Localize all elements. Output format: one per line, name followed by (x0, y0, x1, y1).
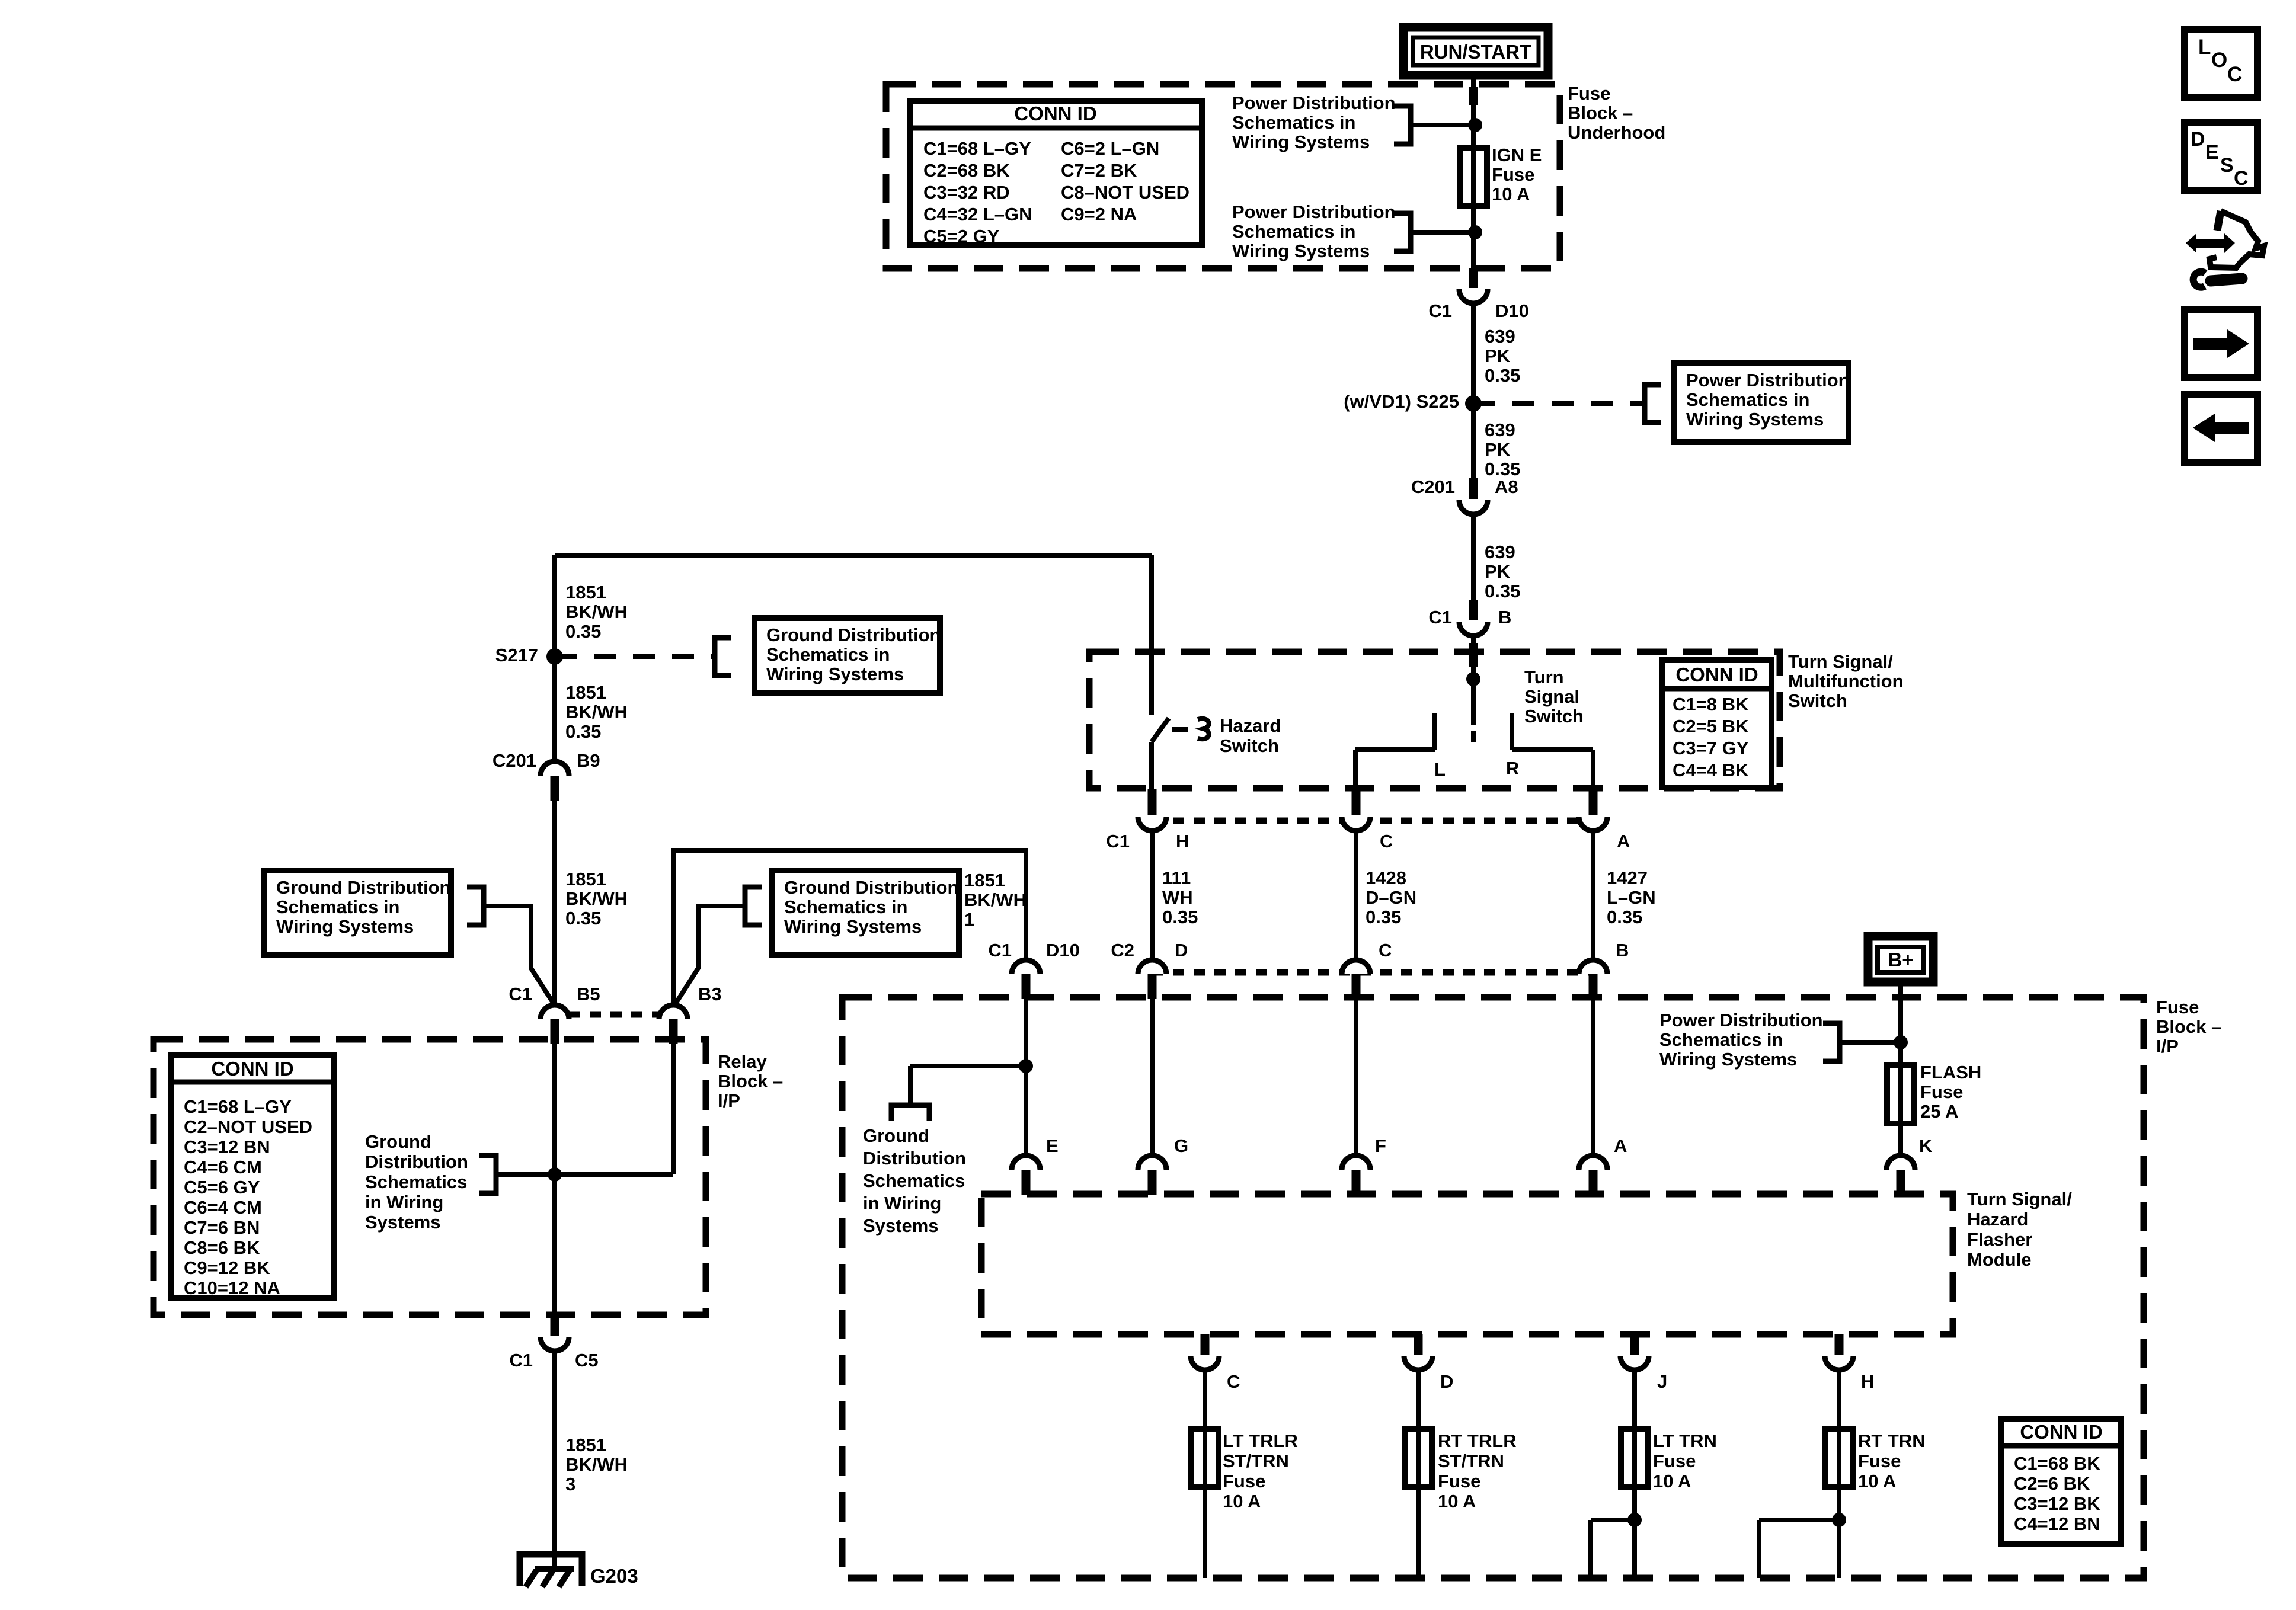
svg-text:B3: B3 (698, 984, 722, 1004)
connector C1 C5 (551, 1315, 559, 1336)
wire RT TRN branch down (1757, 1520, 1761, 1578)
svg-text:Hazard: Hazard (1967, 1209, 2028, 1230)
wire 1851 BK/WH 1 top run to C1 D10 (673, 850, 1026, 1005)
dotted connector line B5-B3 (569, 1012, 659, 1018)
svg-text:C: C (1380, 831, 1393, 852)
svg-text:C1: C1 (1428, 607, 1452, 628)
svg-text:R: R (1506, 758, 1519, 779)
svg-text:D: D (1440, 1371, 1453, 1392)
wire 639 PK (1471, 301, 1476, 404)
svg-text:0.35: 0.35 (1162, 907, 1198, 927)
svg-text:Switch: Switch (1788, 690, 1847, 711)
svg-text:1: 1 (964, 909, 974, 930)
svg-text:C4=12 BN: C4=12 BN (2014, 1513, 2100, 1534)
connector C1 B5 (541, 1005, 569, 1019)
svg-text:(w/VD1) S225: (w/VD1) S225 (1344, 391, 1459, 412)
svg-text:S: S (2220, 154, 2234, 177)
svg-text:D10: D10 (1046, 940, 1080, 961)
wire into switch (1471, 633, 1476, 679)
wire B to A (1591, 986, 1595, 1157)
junction RT TRN (1832, 1513, 1846, 1527)
svg-text:S217: S217 (495, 645, 538, 665)
svg-text:C10=12 NA: C10=12 NA (184, 1278, 280, 1298)
svg-text:639: 639 (1485, 542, 1515, 562)
svg-text:111: 111 (1162, 868, 1191, 888)
power symbol RUN/START (1403, 27, 1548, 75)
svg-text:ST/TRN: ST/TRN (1223, 1451, 1289, 1471)
svg-text:Switch: Switch (1524, 706, 1584, 726)
svg-text:C3=12 BN: C3=12 BN (184, 1137, 270, 1157)
svg-text:C4=4 BK: C4=4 BK (1673, 760, 1749, 780)
svg-text:1428: 1428 (1366, 868, 1406, 888)
svg-text:in Wiring: in Wiring (365, 1192, 443, 1212)
svg-text:Schematics in: Schematics in (276, 897, 399, 917)
svg-text:D10: D10 (1495, 300, 1529, 321)
svg-text:C5: C5 (575, 1350, 599, 1371)
wire 1851 top run (555, 553, 1152, 558)
wire 639 PK 3 (1471, 512, 1476, 601)
wire RT TRN (1837, 1368, 1841, 1578)
connector C201 A8 (1469, 478, 1478, 499)
svg-text:C1=68 BK: C1=68 BK (2014, 1453, 2100, 1474)
svg-text:G203: G203 (590, 1565, 638, 1587)
connector C201 B9 (541, 761, 569, 776)
junction ground branch (1019, 1059, 1033, 1073)
connector G (1138, 1156, 1166, 1170)
svg-text:Fuse: Fuse (1653, 1451, 1696, 1471)
wire switch pole (1471, 679, 1476, 725)
svg-text:Wiring Systems: Wiring Systems (1232, 132, 1370, 152)
svg-text:C1: C1 (1106, 831, 1130, 852)
icon arrow left (2185, 394, 2257, 462)
svg-text:E: E (1046, 1135, 1059, 1156)
svg-text:C3=32 RD: C3=32 RD (923, 182, 1010, 203)
hazard link dash (1172, 727, 1188, 732)
svg-text:639: 639 (1485, 420, 1515, 440)
svg-text:C4=32 L–GN: C4=32 L–GN (923, 204, 1032, 225)
svg-text:Wiring Systems: Wiring Systems (276, 916, 414, 937)
fuse LT TRLR ST/TRN 10A (1191, 1429, 1219, 1487)
svg-text:Block –: Block – (718, 1071, 783, 1092)
svg-text:Ground Distribution: Ground Distribution (766, 625, 941, 645)
fuse FLASH 25A (1887, 1065, 1914, 1124)
connector C2 D (1138, 960, 1166, 974)
svg-text:Fuse: Fuse (1492, 164, 1534, 185)
switch pole tip (1471, 731, 1476, 742)
svg-text:A: A (1614, 1135, 1627, 1156)
svg-text:C2=68 BK: C2=68 BK (923, 160, 1010, 181)
svg-text:PK: PK (1485, 345, 1511, 366)
svg-text:Fuse: Fuse (1438, 1471, 1480, 1491)
bracket S217 (715, 638, 731, 676)
svg-text:I/P: I/P (718, 1090, 740, 1111)
svg-text:1851: 1851 (565, 869, 606, 889)
hazard switch blade (1152, 718, 1169, 742)
bracket lower (1394, 213, 1411, 251)
svg-text:C7=2 BK: C7=2 BK (1061, 160, 1137, 181)
svg-text:BK/WH: BK/WH (964, 889, 1027, 910)
svg-text:BK/WH: BK/WH (565, 601, 628, 622)
wire hazard out (1149, 742, 1154, 789)
svg-text:1427: 1427 (1607, 868, 1648, 888)
svg-text:B5: B5 (577, 984, 600, 1004)
turn signal switch contacts L/R (1432, 713, 1437, 750)
fuse RT TRLR ST/TRN 10A (1405, 1429, 1432, 1487)
svg-text:RT TRLR: RT TRLR (1438, 1430, 1517, 1451)
dotted connector line (row2) (1152, 969, 1593, 976)
svg-text:0.35: 0.35 (1485, 581, 1520, 601)
wire 1851 BK/WH 3 (552, 1349, 557, 1565)
turn signal/multifunction switch dashed box (1089, 652, 1780, 788)
wire D10 to E (1024, 986, 1028, 1157)
svg-text:Turn: Turn (1524, 667, 1564, 687)
bracket B+ (1823, 1023, 1840, 1061)
svg-text:10 A: 10 A (1858, 1471, 1896, 1491)
wire RT TRN branch (1759, 1518, 1839, 1522)
svg-text:639: 639 (1485, 326, 1515, 347)
svg-text:C1: C1 (509, 984, 532, 1004)
svg-text:0.35: 0.35 (1485, 365, 1520, 386)
svg-text:Fuse: Fuse (1920, 1081, 1963, 1102)
svg-text:Distribution: Distribution (863, 1148, 966, 1169)
svg-text:B: B (1616, 940, 1629, 961)
svg-text:RUN/START: RUN/START (1420, 41, 1531, 63)
wire gd-left to B5 (484, 906, 553, 1003)
svg-text:Block –: Block – (1568, 103, 1633, 123)
svg-text:0.35: 0.35 (565, 721, 601, 742)
bracket S225 (1645, 385, 1661, 422)
junction relay (548, 1167, 562, 1182)
wire 639 PK 2 (1471, 404, 1476, 479)
svg-text:Block –: Block – (2156, 1016, 2221, 1037)
wire C to F (1354, 986, 1358, 1157)
fuse block I/P dashed box (842, 997, 2144, 1578)
bracket gd left (467, 887, 484, 925)
relay block I/P dashed box (154, 1039, 706, 1315)
svg-text:0.35: 0.35 (565, 621, 601, 642)
conn id table (fuse block I/P) (2001, 1419, 2121, 1544)
wire 1427 L-GN (1591, 828, 1595, 961)
wire ground branch (910, 1064, 1026, 1068)
svg-text:Schematics in: Schematics in (1659, 1029, 1783, 1050)
splice S225 (1465, 395, 1482, 412)
wire 111 WH (1150, 828, 1155, 961)
connector J (module) (1630, 1334, 1639, 1355)
svg-text:BK/WH: BK/WH (565, 888, 628, 909)
wire branch lower (1411, 230, 1473, 235)
junction switch feed (1466, 672, 1480, 686)
svg-text:C1: C1 (509, 1350, 533, 1371)
svg-text:Switch: Switch (1220, 735, 1279, 756)
svg-text:A: A (1617, 831, 1630, 852)
svg-text:Underhood: Underhood (1568, 122, 1665, 143)
svg-text:0.35: 0.35 (1366, 907, 1401, 927)
svg-text:Wiring Systems: Wiring Systems (1659, 1049, 1797, 1070)
wire LT TRN branch down (1588, 1520, 1593, 1578)
bracket gd right (745, 887, 762, 925)
ref box ground distribution (left) (264, 870, 451, 955)
svg-text:1851: 1851 (565, 582, 606, 603)
connector C1 D10 (underhood) (1469, 268, 1478, 288)
conn id table (relay block) (171, 1055, 334, 1298)
svg-text:C1=8 BK: C1=8 BK (1673, 694, 1749, 715)
svg-text:C2–NOT USED: C2–NOT USED (184, 1116, 312, 1137)
ref box ground distribution (right) (772, 870, 959, 955)
wire B+ to FLASH fuse (1898, 982, 1903, 1176)
svg-text:C201: C201 (493, 750, 536, 771)
power symbol B+ (1868, 936, 1933, 982)
svg-text:B: B (1498, 607, 1511, 628)
svg-text:Power Distribution: Power Distribution (1686, 370, 1850, 391)
svg-text:CONN ID: CONN ID (2020, 1421, 2102, 1443)
wire LT TRN branch (1591, 1518, 1635, 1522)
svg-text:WH: WH (1162, 887, 1193, 908)
svg-text:C1=68 L–GY: C1=68 L–GY (923, 138, 1031, 159)
svg-text:E: E (2205, 141, 2219, 164)
svg-text:A8: A8 (1495, 476, 1518, 497)
connector C1 B3 (659, 1005, 687, 1019)
svg-text:Hazard: Hazard (1220, 715, 1281, 736)
connector K (1886, 1156, 1915, 1170)
svg-text:Schematics in: Schematics in (766, 644, 890, 665)
svg-text:Wiring Systems: Wiring Systems (1232, 241, 1370, 261)
svg-text:PK: PK (1485, 439, 1511, 460)
dashed ref wire S217 (555, 654, 712, 659)
wire RUN/START to IGN E fuse (1471, 75, 1476, 270)
svg-text:C4=6 CM: C4=6 CM (184, 1157, 262, 1177)
hazard link curl (1198, 719, 1209, 739)
svg-text:0.35: 0.35 (565, 908, 601, 929)
splice S217 (546, 648, 563, 665)
connector C1 H (1148, 789, 1157, 815)
ground bracket (fuse block) (891, 1105, 929, 1121)
svg-text:LT TRN: LT TRN (1653, 1430, 1717, 1451)
svg-text:C2=5 BK: C2=5 BK (1673, 716, 1749, 737)
svg-text:C201: C201 (1411, 476, 1455, 497)
svg-text:C: C (1379, 940, 1392, 961)
fuse LT TRN 10A (1621, 1429, 1648, 1487)
svg-text:H: H (1176, 831, 1189, 852)
svg-text:Module: Module (1967, 1249, 2032, 1270)
wire relay ground tie (496, 1172, 673, 1177)
svg-text:Multifunction: Multifunction (1788, 671, 1904, 692)
svg-text:Turn Signal/: Turn Signal/ (1967, 1189, 2072, 1209)
svg-text:D: D (1175, 940, 1188, 961)
wire ground branch down (908, 1066, 913, 1105)
svg-text:C5=2 GY: C5=2 GY (923, 226, 1000, 247)
icon DESC (2185, 123, 2257, 190)
turn signal/hazard flasher module dashed box (981, 1194, 1953, 1334)
svg-text:C8=6 BK: C8=6 BK (184, 1237, 260, 1258)
svg-text:C: C (2227, 63, 2242, 86)
svg-text:3: 3 (565, 1474, 575, 1494)
connector H (module) (1835, 1334, 1844, 1355)
svg-text:Ground: Ground (365, 1131, 431, 1152)
svg-text:C: C (1227, 1371, 1240, 1392)
fuse IGN E 10A (1460, 148, 1487, 206)
svg-text:CONN ID: CONN ID (1675, 664, 1758, 686)
junction (1468, 118, 1482, 132)
svg-text:Fuse: Fuse (1858, 1451, 1901, 1471)
svg-text:Schematics: Schematics (863, 1170, 965, 1191)
junction B+ (1894, 1035, 1908, 1049)
svg-text:G: G (1174, 1135, 1188, 1156)
svg-text:1851: 1851 (964, 870, 1005, 891)
svg-text:C9=2 NA: C9=2 NA (1061, 204, 1137, 225)
wire LT TRLR (1203, 1368, 1207, 1578)
svg-text:C5=6 GY: C5=6 GY (184, 1177, 260, 1198)
svg-text:L: L (2198, 36, 2211, 59)
svg-text:C2=6 BK: C2=6 BK (2014, 1473, 2090, 1494)
svg-text:Schematics in: Schematics in (784, 897, 907, 917)
wire 1851 to B5 (552, 800, 557, 1005)
svg-text:Flasher: Flasher (1967, 1229, 2032, 1250)
svg-text:Ground Distribution: Ground Distribution (276, 877, 450, 898)
svg-text:Wiring Systems: Wiring Systems (1686, 409, 1824, 430)
svg-text:C6=2 L–GN: C6=2 L–GN (1061, 138, 1159, 159)
svg-text:CONN ID: CONN ID (211, 1058, 293, 1080)
svg-text:Distribution: Distribution (365, 1151, 468, 1172)
fuse block underhood dashed box (886, 84, 1560, 268)
svg-text:CONN ID: CONN ID (1014, 103, 1096, 124)
svg-text:Power Distribution: Power Distribution (1659, 1010, 1823, 1030)
svg-text:L–GN: L–GN (1607, 887, 1656, 908)
wire RT TRLR (1416, 1368, 1421, 1578)
connector C (module) (1201, 1334, 1210, 1355)
svg-text:C6=4 CM: C6=4 CM (184, 1197, 262, 1218)
svg-text:C1=68 L–GY: C1=68 L–GY (184, 1096, 292, 1117)
svg-text:BK/WH: BK/WH (565, 1454, 628, 1475)
wire B3 down (671, 1044, 676, 1174)
svg-text:PK: PK (1485, 561, 1511, 582)
svg-text:Schematics in: Schematics in (1686, 389, 1809, 410)
conn id table (switch) (1662, 660, 1771, 788)
stub through switch box edge (1469, 643, 1478, 667)
svg-text:10 A: 10 A (1653, 1471, 1691, 1491)
svg-text:D–GN: D–GN (1366, 887, 1416, 908)
svg-text:F: F (1375, 1135, 1386, 1156)
stub through underhood box edge (1469, 87, 1478, 105)
svg-text:BK/WH: BK/WH (565, 702, 628, 722)
connector C1 D10 (row2) (1012, 960, 1040, 974)
wire D to G (1150, 986, 1155, 1157)
wire branch upper (1411, 123, 1473, 127)
svg-text:Wiring Systems: Wiring Systems (784, 916, 922, 937)
svg-text:C7=6 BN: C7=6 BN (184, 1217, 260, 1238)
svg-text:B9: B9 (577, 750, 600, 771)
svg-text:Schematics in: Schematics in (1232, 221, 1355, 242)
svg-text:Ground Distribution: Ground Distribution (784, 877, 958, 898)
svg-text:Turn Signal/: Turn Signal/ (1788, 651, 1893, 672)
svg-text:Systems: Systems (863, 1215, 939, 1236)
svg-text:Relay: Relay (718, 1051, 767, 1072)
svg-text:Systems: Systems (365, 1212, 441, 1233)
svg-text:1851: 1851 (565, 682, 606, 703)
wire B5 down through relay block (552, 1044, 557, 1315)
wire LT TRN (1632, 1368, 1637, 1578)
junction (1468, 225, 1482, 239)
svg-text:10 A: 10 A (1223, 1491, 1261, 1512)
connector F (1342, 1156, 1370, 1170)
svg-text:Fuse: Fuse (2156, 997, 2199, 1017)
junction LT TRN (1627, 1513, 1642, 1527)
connector B (row2) (1579, 960, 1607, 974)
svg-text:C3=7 GY: C3=7 GY (1673, 738, 1749, 758)
wire gd-right to B3 (676, 906, 745, 1003)
connector C1 A (1589, 789, 1598, 815)
svg-text:Power Distribution: Power Distribution (1232, 201, 1396, 222)
connector C1 B (1469, 600, 1478, 620)
dashed ref wire S225 (1473, 401, 1643, 406)
svg-text:C: C (2234, 167, 2249, 190)
icon LOC (2185, 30, 2257, 98)
svg-text:25 A: 25 A (1920, 1101, 1958, 1122)
connector A (row3) (1579, 1156, 1607, 1170)
ref box power distribution S225 (1674, 363, 1849, 442)
svg-text:C9=12 BK: C9=12 BK (184, 1257, 270, 1278)
wire 1851 left down (552, 555, 557, 763)
svg-text:FLASH: FLASH (1920, 1062, 1981, 1083)
svg-text:J: J (1657, 1371, 1667, 1392)
svg-text:Ground: Ground (863, 1125, 929, 1146)
svg-text:LT TRLR: LT TRLR (1223, 1430, 1298, 1451)
connector D (module) (1414, 1334, 1423, 1355)
icon shift/adjust (double arrow, outline, wrench) (2186, 233, 2235, 253)
svg-text:C1: C1 (988, 940, 1012, 961)
ground G203 (520, 1554, 582, 1586)
connector C1 C (1352, 789, 1361, 815)
svg-text:in Wiring: in Wiring (863, 1193, 941, 1214)
connector E (1012, 1156, 1040, 1170)
svg-text:Fuse: Fuse (1568, 83, 1610, 104)
svg-text:L: L (1434, 759, 1446, 780)
svg-text:O: O (2211, 49, 2227, 72)
svg-text:1851: 1851 (565, 1435, 606, 1455)
conn id table (fuse block underhood) (910, 101, 1202, 245)
svg-text:10 A: 10 A (1438, 1491, 1476, 1512)
svg-text:RT TRN: RT TRN (1858, 1430, 1926, 1451)
svg-text:C1: C1 (1428, 300, 1452, 321)
connector C (row2) (1342, 960, 1370, 974)
svg-text:K: K (1919, 1135, 1933, 1156)
svg-text:0.35: 0.35 (1607, 907, 1642, 927)
bracket upper (1394, 106, 1411, 144)
svg-text:C2: C2 (1111, 940, 1134, 961)
svg-text:Fuse: Fuse (1223, 1471, 1265, 1491)
svg-text:Power Distribution: Power Distribution (1232, 92, 1396, 113)
svg-text:10 A: 10 A (1492, 184, 1530, 204)
icon arrow right (2185, 310, 2257, 377)
wire branch B+ (1840, 1040, 1901, 1045)
svg-text:D: D (2191, 128, 2205, 151)
svg-text:I/P: I/P (2156, 1036, 2179, 1057)
dotted connector line C1 (switch) (1152, 818, 1593, 824)
svg-text:C3=12 BK: C3=12 BK (2014, 1493, 2100, 1514)
svg-text:C8–NOT USED: C8–NOT USED (1061, 182, 1189, 203)
wire 1428 D-GN (1354, 828, 1358, 961)
svg-text:Wiring Systems: Wiring Systems (766, 664, 904, 684)
ref box ground distribution S217 (754, 618, 940, 693)
svg-text:Schematics in: Schematics in (1232, 112, 1355, 133)
svg-text:ST/TRN: ST/TRN (1438, 1451, 1504, 1471)
svg-text:H: H (1861, 1371, 1874, 1392)
fuse RT TRN 10A (1825, 1429, 1853, 1487)
svg-text:B+: B+ (1888, 949, 1913, 971)
svg-text:IGN E: IGN E (1492, 145, 1542, 165)
svg-text:Schematics: Schematics (365, 1172, 467, 1192)
bracket relay ground (479, 1156, 496, 1193)
svg-text:Signal: Signal (1524, 686, 1579, 707)
